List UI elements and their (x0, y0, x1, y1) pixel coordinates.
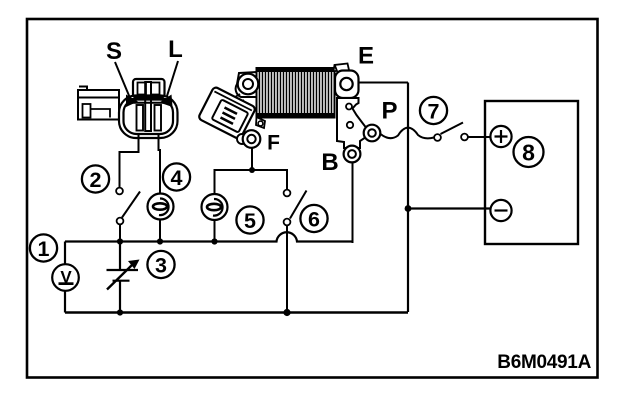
voltmeter (52, 264, 79, 291)
svg-text:7: 7 (428, 100, 440, 124)
wire F down (251, 148, 253, 170)
node bus-lamp4 (157, 238, 163, 244)
brush holder bars (221, 108, 238, 124)
svg-text:3: 3 (155, 254, 167, 278)
P eyelet (364, 125, 381, 142)
rheostat top plate (107, 269, 139, 271)
upper bus wire with hump (65, 232, 354, 241)
node bus-switch2 (117, 238, 123, 244)
switch 6 lower contact (284, 219, 291, 226)
wire switch7 to battery plus (468, 136, 490, 138)
leader line from L (167, 61, 178, 96)
svg-text:8: 8 (522, 140, 535, 166)
svg-text:4: 4 (171, 166, 183, 190)
rheostat wire upper (119, 242, 121, 271)
rheostat wire lower (119, 281, 121, 313)
wire P wavy to switch 7 (381, 128, 435, 139)
connector T divider (131, 82, 167, 131)
circled 8 (514, 137, 544, 167)
svg-text:1: 1 (38, 237, 50, 261)
svg-text:5: 5 (244, 209, 256, 233)
battery box (485, 101, 578, 244)
svg-text:L: L (168, 36, 183, 63)
wire E to right (359, 82, 409, 84)
arrowhead L (160, 95, 173, 108)
connector oval face (119, 96, 178, 139)
wire lamp4 to bus (159, 220, 161, 243)
tab above block near E (334, 64, 350, 72)
wire lamp5 to bus (214, 220, 216, 242)
wire switch6 down through hump (286, 226, 288, 313)
svg-text:F: F (267, 132, 280, 155)
switch 7 blade (441, 123, 464, 135)
circled 3 (147, 251, 174, 278)
bracket hole upper (346, 104, 352, 110)
svg-text:6: 6 (308, 208, 320, 232)
wire B to bus corner (353, 163, 354, 243)
circled 1 (30, 234, 57, 261)
svg-text:S: S (106, 38, 122, 65)
rheostat arrow (107, 264, 133, 290)
B eyelet (344, 146, 361, 163)
wire to battery minus (408, 207, 490, 209)
node bus-lamp5 (211, 238, 217, 244)
circled 7 (420, 97, 447, 124)
arrowhead S (126, 95, 138, 108)
switch 2 lower contact (117, 218, 124, 225)
circled 2 (82, 165, 109, 192)
wire L from connector (159, 135, 161, 194)
wire junction to switch6 (252, 170, 287, 190)
connector terminal slot right (155, 105, 162, 131)
brush holder top edge double line (214, 91, 251, 110)
regulator left bracket edge (222, 94, 244, 108)
rheostat bottom plate (113, 280, 130, 282)
switch 2 blade (122, 192, 140, 218)
regulator foot hole (256, 117, 265, 128)
node bottombus-switch6 (283, 309, 290, 316)
circled 6 (300, 205, 327, 232)
leader line from S (115, 62, 130, 98)
lamp for 5 (202, 194, 228, 220)
brush holder corner lug (237, 134, 247, 144)
regulator coil block (hatched) (257, 68, 335, 118)
svg-text:P: P (381, 98, 397, 125)
wire voltmeter to bottom bus (64, 291, 66, 313)
connector side housing (78, 87, 119, 120)
regulator top-left eyelet (236, 72, 259, 97)
wire bus to voltmeter (64, 242, 66, 266)
switch 7 left contact (434, 134, 441, 141)
circled 5 (236, 206, 263, 233)
lamp for 4 (148, 194, 174, 220)
svg-text:2: 2 (90, 168, 102, 192)
node bottombus-rheostat (117, 309, 123, 315)
regulator E housing and eyelet (335, 65, 359, 99)
main vertical wire x=408 (407, 83, 409, 313)
brush holder inner (212, 99, 249, 132)
switch 6 upper contact (284, 190, 291, 197)
battery plus terminal (490, 126, 511, 147)
svg-text:E: E (358, 43, 374, 70)
connector top tab (133, 79, 165, 98)
wire switch2 to bus (119, 225, 121, 243)
svg-text:B: B (321, 149, 338, 176)
node main vertical to battery minus (405, 205, 412, 212)
switch 2 upper contact (116, 188, 123, 195)
connector terminal slot left (137, 105, 144, 131)
wire junction to lamp5 (215, 170, 253, 194)
battery minus terminal (490, 200, 511, 221)
regulator right bracket (337, 98, 368, 148)
wire S from connector (120, 135, 139, 188)
switch 6 blade (290, 191, 307, 219)
svg-text:B6M0491A: B6M0491A (497, 352, 591, 373)
bracket hole lower (347, 122, 353, 128)
switch 7 right contact (461, 134, 468, 141)
brush holder outer (198, 86, 256, 139)
F eyelet (243, 130, 261, 148)
node F junction (249, 167, 255, 173)
bottom bus wire (65, 311, 408, 313)
circled 4 (163, 163, 190, 190)
